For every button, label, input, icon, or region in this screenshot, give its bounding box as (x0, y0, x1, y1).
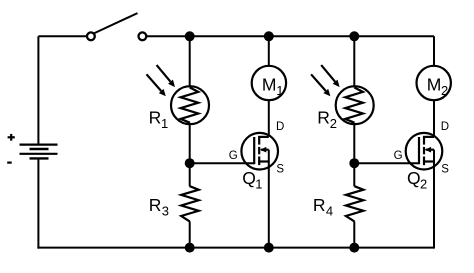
junction bottom rail at R3 (185, 243, 195, 253)
label Q1 (242, 168, 262, 192)
svg-text:Q: Q (242, 168, 256, 188)
wire branch R1 to junction and R3 (189, 123, 191, 187)
label battery plus (8, 134, 15, 141)
label Q2 pin S (441, 163, 449, 175)
label Q2 pin G (394, 150, 403, 162)
junction bottom rail at R4 (349, 243, 359, 253)
wire Q1 source to bottom rail (268, 150, 270, 248)
wire branch R1 top (189, 36, 191, 87)
svg-text:R: R (149, 108, 162, 128)
photoresistor R1 (171, 86, 209, 124)
label Q1 pin D (276, 121, 284, 133)
junction R2-R4 gate node (349, 158, 359, 168)
label battery minus (7, 162, 12, 164)
wire Q2 gate (354, 162, 419, 164)
wire R4 bottom (353, 221, 355, 247)
motor M1 (252, 66, 286, 100)
wire top rail left segment (38, 35, 87, 37)
label Q2 pin D (441, 121, 449, 133)
label Q1 pin G (229, 150, 238, 162)
junction top rail at R1 (185, 31, 195, 41)
svg-text:D: D (276, 121, 284, 133)
light arrow 1 at R1 (157, 65, 175, 87)
label Q1 pin S (276, 163, 284, 175)
svg-text:G: G (229, 150, 238, 162)
junction top rail at R2 (349, 31, 359, 41)
svg-text:S: S (276, 163, 284, 175)
svg-text:2: 2 (330, 116, 337, 131)
svg-text:S: S (441, 163, 449, 175)
wire M1 to Q1 drain (268, 100, 270, 138)
label R3 (149, 195, 169, 219)
svg-text:1: 1 (161, 116, 168, 131)
svg-text:Q: Q (407, 168, 421, 188)
svg-text:G: G (394, 150, 403, 162)
wire bottom rail (37, 247, 434, 249)
wire top rail right segment (147, 35, 434, 37)
wire Q2 source to bottom rail (433, 150, 435, 249)
wire branch R2 to junction and R4 (353, 123, 355, 187)
light arrow 1 at R2 (321, 65, 339, 87)
label R4 (313, 195, 333, 219)
switch S1 (87, 13, 146, 40)
junction top rail at M1 (264, 31, 274, 41)
resistor R3 (181, 186, 199, 221)
mosfet Q1 (241, 133, 278, 170)
svg-text:D: D (441, 121, 449, 133)
svg-text:M: M (427, 75, 442, 95)
photoresistor R2 (336, 86, 374, 124)
junction R1-R3 gate node (185, 158, 195, 168)
wire branch R2 top (353, 36, 355, 87)
svg-text:2: 2 (441, 83, 448, 98)
wire left rail top (battery positive lead) (37, 36, 39, 144)
svg-text:R: R (313, 195, 326, 215)
label R2 (317, 108, 337, 131)
light arrow 2 at R2 (311, 74, 330, 96)
svg-text:3: 3 (162, 203, 169, 218)
svg-text:4: 4 (326, 203, 333, 218)
wire branch M1 top (268, 36, 270, 66)
svg-text:M: M (262, 75, 277, 95)
svg-text:2: 2 (420, 177, 427, 192)
wire M2 to Q2 drain (433, 100, 435, 138)
junction bottom rail at Q1 source (264, 243, 274, 253)
svg-text:R: R (317, 108, 330, 128)
resistor R4 (346, 186, 364, 221)
wire branch M2 top (433, 36, 435, 66)
wire left rail bottom (battery negative lead) (37, 158, 39, 248)
svg-text:R: R (149, 195, 162, 215)
light arrow 2 at R1 (147, 74, 166, 96)
svg-text:1: 1 (255, 177, 262, 192)
svg-text:1: 1 (276, 83, 283, 98)
motor M2 (417, 66, 451, 100)
wire R3 bottom (189, 221, 191, 247)
label Q2 (407, 168, 427, 192)
mosfet Q2 (406, 133, 443, 170)
battery B1 (20, 145, 58, 159)
label R1 (149, 108, 169, 131)
wire Q1 gate (190, 162, 255, 164)
